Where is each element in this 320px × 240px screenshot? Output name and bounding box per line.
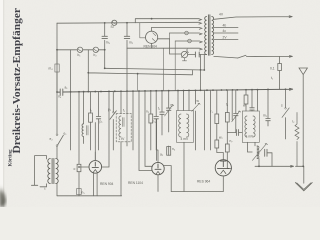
svg-text:RES 964: RES 964: [197, 180, 210, 184]
svg-text:1 mV: 1 mV: [246, 134, 254, 138]
svg-text:1 tV: 1 tV: [119, 137, 126, 141]
svg-text:m₃: m₃: [106, 40, 111, 44]
svg-text:REN 1104: REN 1104: [128, 181, 143, 185]
svg-text:Körting: Körting: [8, 149, 14, 166]
svg-text:o: o: [74, 167, 76, 171]
svg-text:0,1: 0,1: [270, 67, 275, 71]
svg-text:d: d: [186, 48, 188, 52]
svg-text:t: t: [45, 187, 46, 191]
svg-text:4c: 4c: [223, 29, 227, 33]
svg-text:REN 904: REN 904: [144, 45, 158, 49]
svg-text:4b: 4b: [223, 23, 227, 27]
svg-text:m₅: m₅: [263, 114, 268, 118]
svg-text:Dreikreis-Vorsatz-Empfänger: Dreikreis-Vorsatz-Empfänger: [12, 8, 23, 154]
svg-text:m₄: m₄: [49, 67, 54, 71]
svg-text:Si: Si: [111, 25, 114, 29]
svg-text:4 mV: 4 mV: [181, 137, 189, 141]
svg-text:REN 904: REN 904: [100, 182, 114, 186]
